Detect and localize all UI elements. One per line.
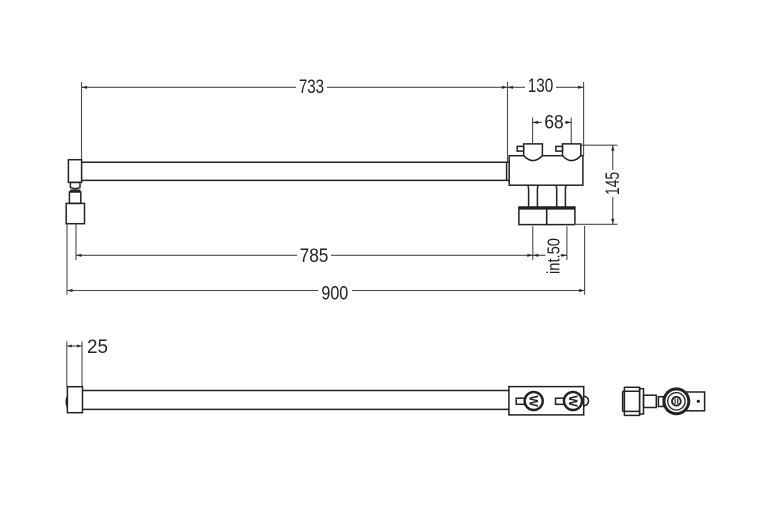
- svg-text:int.50: int.50: [543, 238, 563, 274]
- svg-text:900: 900: [321, 283, 348, 305]
- svg-text:25: 25: [87, 336, 108, 358]
- svg-text:785: 785: [300, 245, 329, 267]
- svg-text:W: W: [527, 395, 541, 407]
- svg-text:733: 733: [299, 76, 324, 98]
- svg-text:145: 145: [602, 172, 624, 195]
- svg-text:68: 68: [544, 112, 563, 134]
- svg-text:W: W: [566, 395, 580, 407]
- svg-text:130: 130: [528, 75, 554, 97]
